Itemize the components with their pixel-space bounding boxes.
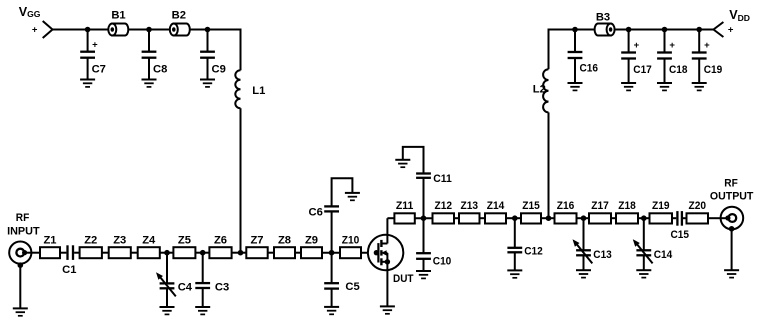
capacitor C11 upper lead (403, 147, 424, 174)
svg-text:Z16: Z16 (557, 200, 575, 212)
capacitor C4 lower lead (166, 288, 168, 307)
wire Z19 to C15 (672, 217, 676, 219)
microstrip Z15 (521, 213, 541, 223)
ground RF output (724, 270, 739, 277)
capacitor C10 lower lead (423, 259, 425, 271)
svg-text:C18: C18 (669, 64, 688, 76)
svg-text:Z4: Z4 (142, 235, 156, 247)
node input connector shield (18, 262, 24, 268)
wire Z2 to Z3 (102, 252, 109, 254)
capacitor C19 lead (698, 30, 700, 53)
transistor DUT drain lead (386, 218, 388, 243)
capacitor C19 (692, 53, 707, 59)
wire Z18 to Z19 (638, 217, 650, 219)
capacitor C3 (195, 283, 210, 288)
capacitor C4 arrow (156, 272, 176, 296)
svg-text:RF: RF (724, 178, 738, 190)
ground C4 (160, 307, 175, 314)
wire Z14 to Z15 (506, 217, 521, 219)
node L2 junction (546, 215, 552, 221)
svg-text:C16: C16 (580, 63, 599, 75)
wire Z3 to Z4 (131, 252, 138, 254)
wire C1 to Z2 (74, 252, 80, 254)
capacitor C16 (568, 52, 583, 58)
wire Z16 to Z17 (577, 217, 590, 219)
wire Z11 to Z12 (415, 217, 433, 219)
connector RF input (9, 242, 31, 264)
capacitor C16 lower lead (574, 58, 576, 83)
wire L2 top to B3 (548, 29, 595, 31)
wire Z15 to Z16 (541, 217, 555, 219)
capacitor C8 lead (148, 30, 150, 53)
transistor DUT gate node (374, 250, 379, 255)
connector RF output (721, 207, 744, 230)
capacitor C7 lower lead (87, 58, 89, 80)
transistor DUT channel (380, 240, 382, 265)
microstrip Z8 (274, 247, 295, 258)
inductor L2 (543, 69, 548, 112)
capacitor C13 arrow (573, 239, 593, 263)
microstrip Z12 (433, 213, 455, 223)
microstrip Z11 (394, 213, 414, 223)
microstrip Z1 (40, 247, 60, 258)
node C16 junction (572, 27, 578, 33)
ground C5 (324, 307, 339, 314)
wire L1 to input line (240, 108, 242, 252)
svg-text:L2: L2 (533, 83, 546, 95)
capacitor C18 lead (664, 30, 666, 53)
microstrip Z18 (616, 213, 638, 223)
transistor DUT drain tap (381, 243, 387, 245)
svg-text:Z15: Z15 (522, 200, 540, 212)
svg-text:INPUT: INPUT (7, 225, 40, 237)
svg-text:+: + (32, 24, 38, 35)
ferrite bead B2 (170, 24, 190, 36)
svg-text:Z1: Z1 (43, 235, 56, 247)
transistor DUT source lead (386, 253, 388, 307)
capacitor C3 lead (202, 253, 204, 283)
node C10 C11 junction (421, 215, 427, 221)
svg-text:Z12: Z12 (435, 200, 453, 212)
svg-text:C12: C12 (524, 245, 543, 257)
svg-text:C5: C5 (345, 281, 359, 293)
svg-text:Z13: Z13 (461, 200, 479, 212)
svg-text:Z10: Z10 (342, 235, 360, 247)
microstrip Z6 (209, 247, 231, 258)
microstrip Z19 (650, 213, 673, 223)
wire B2 to corner (190, 29, 241, 31)
wire Z1 to C1 (60, 252, 66, 254)
svg-text:B3: B3 (596, 12, 610, 24)
node C12 junction (512, 215, 518, 221)
node C7 junction (85, 27, 91, 33)
capacitor C11 (416, 174, 431, 178)
svg-text:Z7: Z7 (250, 235, 263, 247)
capacitor C5 lower lead (331, 289, 333, 307)
node C18 junction (662, 27, 668, 33)
svg-text:B1: B1 (111, 9, 125, 21)
ground C19 (692, 83, 707, 90)
svg-text:C11: C11 (433, 173, 452, 185)
capacitor C16 lead (574, 30, 576, 53)
wire Z7 to Z8 (268, 252, 274, 254)
capacitor C12 lower lead (514, 252, 516, 270)
microstrip Z3 (109, 247, 131, 258)
variable capacitor C4 (160, 283, 175, 288)
wire Z9 to Z10 (322, 252, 340, 254)
node C4 junction (164, 250, 170, 256)
ferrite bead B1 (108, 24, 128, 36)
capacitor C17 lead (628, 30, 630, 53)
wire L2 to output line (548, 112, 550, 218)
capacitor C15 series (677, 211, 682, 226)
svg-text:C7: C7 (92, 63, 106, 75)
node C14 junction (641, 215, 647, 221)
microstrip Z13 (459, 213, 480, 223)
wire Z17 to Z18 (611, 217, 616, 219)
ground C8 (142, 80, 157, 87)
svg-text:C17: C17 (633, 64, 652, 76)
microstrip Z14 (485, 213, 506, 223)
svg-text:DUT: DUT (393, 273, 414, 285)
VDD input arrow (714, 22, 724, 37)
capacitor C17 lower lead (628, 59, 630, 84)
capacitor C9 lower lead (207, 58, 209, 80)
capacitor C6 upper lead (332, 178, 353, 206)
node C3 junction (200, 250, 206, 256)
microstrip Z9 (301, 247, 322, 258)
transistor DUT body (368, 235, 403, 270)
svg-text:+: + (669, 40, 675, 51)
wire B3 to VDD (615, 29, 714, 31)
capacitor C14 arrow (633, 239, 653, 263)
svg-text:C1: C1 (62, 264, 76, 276)
node L1 junction (238, 250, 244, 256)
svg-text:B2: B2 (172, 9, 186, 21)
ground RF input (13, 308, 28, 315)
wire corner down to L1 (240, 29, 242, 71)
svg-text:+: + (92, 40, 98, 51)
transistor DUT body arrow (381, 250, 387, 255)
svg-text:C6: C6 (309, 207, 323, 219)
microstrip Z20 (687, 213, 709, 223)
ground C3 (195, 307, 210, 314)
capacitor C3 lower lead (202, 288, 204, 307)
svg-text:C14: C14 (654, 249, 673, 261)
wire Z12 to Z13 (454, 217, 459, 219)
microstrip Z17 (589, 213, 611, 223)
svg-text:L1: L1 (252, 85, 265, 97)
svg-text:OUTPUT: OUTPUT (710, 190, 754, 202)
ground C16 (568, 83, 583, 90)
microstrip Z7 (246, 247, 267, 258)
svg-text:C19: C19 (704, 64, 723, 76)
svg-text:+: + (634, 40, 640, 51)
node C9 junction (205, 27, 211, 33)
wire Z6 to Z7 (232, 252, 247, 254)
transistor DUT source node (385, 259, 390, 264)
wire Z5 to Z6 (195, 252, 209, 254)
ferrite bead B3 (595, 24, 615, 36)
capacitor C5 (324, 283, 339, 288)
svg-text:C10: C10 (433, 255, 452, 267)
svg-text:RF: RF (16, 212, 30, 224)
wire B1 to B2 (128, 29, 170, 31)
svg-text:Z6: Z6 (214, 235, 227, 247)
ground C13 (576, 270, 591, 277)
wire connector to Z1 (31, 252, 40, 254)
ground C14 (636, 270, 651, 277)
capacitor C13 lower lead (583, 255, 585, 270)
svg-text:C4: C4 (178, 281, 193, 293)
svg-text:C15: C15 (671, 229, 690, 241)
svg-text:VGG: VGG (19, 5, 41, 19)
svg-text:C9: C9 (212, 63, 226, 75)
wire Z13 to Z14 (480, 217, 486, 219)
wire Z20 to output connector (708, 217, 721, 219)
VGG input arrow (43, 21, 53, 38)
capacitor C13 lead (583, 218, 585, 250)
capacitor C1 series (68, 245, 74, 260)
transistor DUT source tap (381, 261, 387, 263)
node C8 junction (146, 27, 152, 33)
svg-text:C13: C13 (593, 249, 612, 261)
capacitor C12 lead (514, 218, 516, 248)
ground C12 (507, 270, 522, 277)
svg-text:+: + (704, 40, 710, 51)
svg-text:Z3: Z3 (113, 235, 126, 247)
node C19 junction (696, 27, 702, 33)
microstrip Z4 (138, 247, 160, 258)
wire output shield to ground (731, 229, 733, 270)
capacitor C17 (621, 53, 636, 59)
capacitor C18 lower lead (664, 59, 666, 84)
ground C9 (200, 80, 215, 87)
capacitor C7 lead (87, 30, 89, 53)
svg-text:C3: C3 (215, 281, 229, 293)
capacitor C6 lower lead (331, 212, 333, 253)
svg-text:Z18: Z18 (618, 200, 636, 212)
svg-text:Z20: Z20 (689, 200, 707, 212)
capacitor C14 lead (643, 218, 645, 250)
svg-text:Z17: Z17 (591, 200, 609, 212)
microstrip Z5 (173, 247, 195, 258)
variable capacitor C13 (576, 250, 591, 255)
capacitor C12 (507, 248, 522, 253)
capacitor C9 lead (207, 30, 209, 53)
capacitor C4 lead (166, 253, 168, 284)
svg-text:Z5: Z5 (178, 235, 191, 247)
wire Z4 to Z5 (160, 252, 174, 254)
ground C7 (80, 80, 95, 87)
capacitor C19 lower lead (698, 59, 700, 84)
node output connector shield (729, 226, 735, 232)
microstrip Z2 (80, 247, 102, 258)
capacitor C8 lower lead (148, 58, 150, 80)
variable capacitor C14 (636, 250, 651, 255)
ground C11 (395, 160, 410, 167)
svg-text:VDD: VDD (729, 8, 750, 23)
wire DUT drain to Z11 (387, 217, 394, 219)
wire Z10 to DUT gate (361, 252, 378, 254)
capacitor C8 (142, 52, 157, 58)
svg-text:Z11: Z11 (396, 200, 414, 212)
svg-text:Z8: Z8 (278, 235, 291, 247)
transistor DUT gate bar (377, 243, 379, 262)
node C6 C5 junction (329, 250, 335, 256)
svg-text:C8: C8 (153, 63, 167, 75)
svg-text:+: + (728, 24, 734, 35)
node C17 junction (626, 27, 632, 33)
ground DUT source (380, 306, 395, 313)
microstrip Z10 (340, 247, 361, 258)
inductor L1 (235, 70, 240, 108)
wire C15 to Z20 (683, 217, 687, 219)
capacitor C11 lower lead (423, 178, 425, 218)
svg-text:Z14: Z14 (487, 200, 505, 212)
capacitor C9 (200, 52, 215, 58)
ground C6 (345, 193, 360, 200)
capacitor C18 (657, 53, 672, 59)
svg-text:Z9: Z9 (305, 235, 318, 247)
capacitor C5 lead (331, 253, 333, 284)
capacitor C14 lower lead (643, 255, 645, 270)
capacitor C6 (324, 206, 339, 211)
svg-text:Z2: Z2 (84, 235, 97, 247)
microstrip Z16 (555, 213, 577, 223)
capacitor C7 (80, 52, 95, 58)
wire input shield to ground (19, 265, 21, 308)
wire Z8 to Z9 (295, 252, 301, 254)
node C13 junction (581, 215, 587, 221)
capacitor C10 (416, 253, 431, 259)
ground C10 (416, 271, 431, 278)
wire L2 top lead (548, 30, 550, 70)
svg-text:Z19: Z19 (652, 200, 670, 212)
wire VGG to B1 (53, 29, 109, 31)
ground C18 (657, 83, 672, 90)
capacitor C10 lead (423, 218, 425, 253)
ground C17 (621, 83, 636, 90)
